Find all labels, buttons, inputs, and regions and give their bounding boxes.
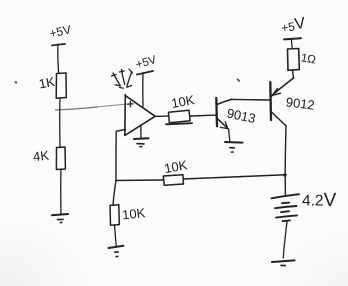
ground (Q1) <box>225 142 243 152</box>
wire Q2 collector down to battery node <box>284 126 287 175</box>
svg-text:4K: 4K <box>32 148 50 165</box>
resistor 1 ohm <box>288 49 318 71</box>
wire feedback left segment <box>116 179 163 182</box>
light rays symbol <box>112 69 133 88</box>
power +5V terminal (top left) <box>48 22 72 45</box>
wire battery to ground <box>283 222 287 259</box>
op-amp U1 <box>125 95 155 136</box>
wire supply to op-amp top <box>142 73 144 107</box>
wire +5V to 1ohm <box>290 39 293 49</box>
node: battery junction <box>283 173 286 176</box>
resistor 10K (bottom) <box>110 205 146 226</box>
wire battery node to battery top <box>284 175 286 195</box>
wire inverting node down to 10K bottom <box>113 180 116 205</box>
wire 1K to 4K <box>59 98 61 147</box>
resistor 10K (feedback) <box>163 157 189 185</box>
power +5V terminal (top right) <box>280 15 307 39</box>
wire 10K to Q1 base <box>190 114 216 117</box>
wire 4K to ground <box>60 170 62 215</box>
transistor Q1 9013 <box>216 98 257 129</box>
wire Q1 collector to Q2 base <box>232 98 271 101</box>
ground (op-amp) <box>134 125 149 147</box>
resistor 1K <box>38 73 67 98</box>
svg-text:1K: 1K <box>38 74 57 92</box>
battery 4.2V <box>272 190 337 221</box>
stray ink dot <box>14 81 18 84</box>
wire feedback right segment <box>183 175 285 179</box>
node: divider tap wire to op-amp + input <box>56 107 98 110</box>
wire 10K bottom to ground <box>115 225 117 246</box>
svg-text:10K: 10K <box>121 205 146 222</box>
wire from +5V down to 1K <box>57 45 60 73</box>
ground (left) <box>52 214 68 223</box>
wire Q1 emitter down <box>229 129 230 141</box>
resistor 4K <box>32 147 65 170</box>
svg-text:4.2V: 4.2V <box>302 190 337 211</box>
stray ink speck <box>238 79 240 81</box>
wire inverting input <box>116 130 126 181</box>
wire 1ohm to Q2 emitter <box>293 70 294 78</box>
wire op-amp output <box>155 115 168 117</box>
ground (bottom right) <box>272 260 295 265</box>
ground (bottom middle) <box>109 246 124 257</box>
power +5V terminal (op-amp supply) <box>135 54 159 74</box>
resistor 10K (output series) <box>166 92 196 124</box>
transistor Q2 9012 <box>270 78 315 126</box>
